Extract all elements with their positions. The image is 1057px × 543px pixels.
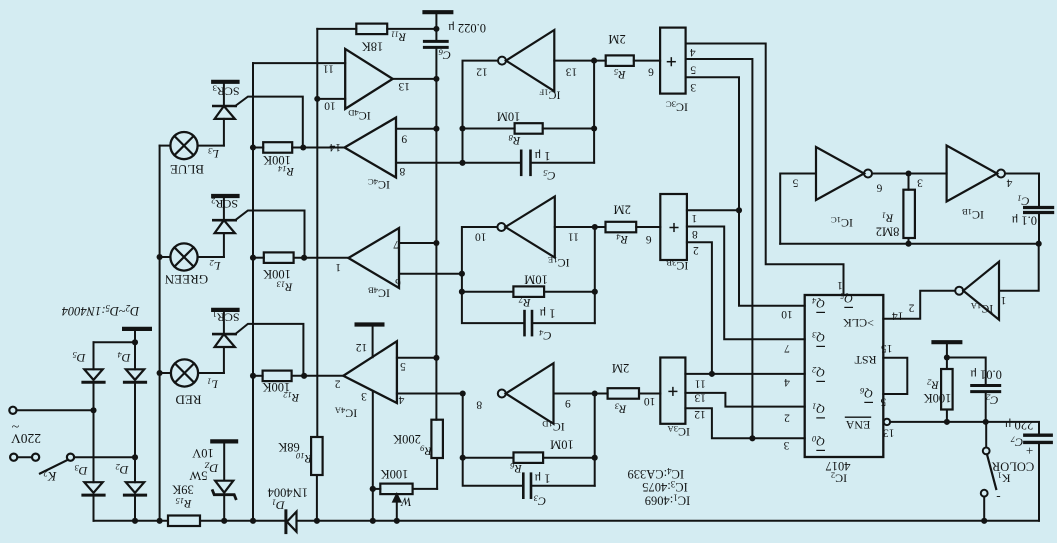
svg-text:10V: 10V [192, 446, 214, 460]
junction IC1F cap row [459, 160, 465, 166]
svg-text:12: 12 [356, 342, 368, 354]
resistor R11 [317, 24, 436, 34]
wire SCR1 anode to lamp [223, 347, 225, 373]
wire Q3 net [687, 227, 805, 340]
wire Q5 net [686, 44, 844, 296]
svg-text:5W: 5W [189, 469, 207, 483]
wire clock rail [780, 243, 1038, 245]
wire bridge top lead [134, 331, 136, 342]
svg-text:15: 15 [881, 342, 893, 354]
wire RST loop [883, 358, 907, 394]
junction rail K1 [981, 518, 987, 524]
junction pullup R14 [250, 144, 256, 150]
svg-text:13: 13 [883, 427, 895, 439]
resistor R7 [462, 286, 595, 297]
wire SCR3 anode to lamp [223, 119, 225, 146]
svg-text:6: 6 [648, 66, 654, 78]
svg-text:10M: 10M [497, 109, 521, 123]
wire IC4A in5 [397, 357, 437, 359]
junction ramp pin5 [433, 355, 439, 361]
svg-text:2M: 2M [614, 203, 631, 217]
svg-text:14: 14 [892, 310, 904, 322]
resistor R14 [253, 142, 345, 153]
inverter IC1D [498, 363, 554, 424]
junction ENA C2 [983, 419, 989, 425]
wire IC1C out [872, 173, 947, 175]
SCR SCR2 body [213, 198, 235, 233]
SCR SCR2 bar [211, 194, 240, 198]
svg-text:>CLK: >CLK [843, 316, 874, 330]
wire Q2 net [685, 373, 804, 375]
wire IC4B in6 [399, 273, 462, 275]
terminal 220V lower [10, 454, 17, 461]
svg-text:7: 7 [784, 342, 790, 354]
junction IC1D fb R6 [460, 455, 466, 461]
svg-text:2M: 2M [608, 32, 625, 46]
wire IC1E out [462, 227, 525, 323]
junction ramp pin9 [433, 126, 439, 132]
wire IC4C in8 [396, 162, 463, 164]
svg-text:13: 13 [398, 81, 410, 93]
SCR SCR3 body [213, 84, 235, 119]
junction rail pullup bus [250, 518, 256, 524]
wire IC1A in [999, 244, 1039, 291]
wire bottom rail right [297, 520, 1040, 522]
wire IC1E fb right [594, 227, 596, 323]
diode D4 [124, 369, 145, 457]
wire IC4C in9 [396, 128, 436, 130]
inverter IC1E [497, 197, 554, 258]
SCR SCR1 gate wire [235, 324, 303, 376]
inverter IC1C [816, 147, 872, 200]
junction W left [370, 486, 376, 492]
resistor R4 [606, 222, 661, 233]
svg-text:4: 4 [398, 394, 404, 406]
svg-text:W: W [400, 495, 412, 509]
svg-text:0.1 μ: 0.1 μ [1011, 214, 1037, 228]
wire IC1F out [463, 61, 499, 163]
potentiometer W [373, 484, 413, 495]
svg-text:5: 5 [400, 360, 406, 372]
junction Q2 IC3B2 [709, 371, 715, 377]
bridge ground bar [122, 327, 152, 331]
svg-text:3: 3 [361, 390, 367, 402]
resistor R3 [608, 388, 661, 399]
svg-text:4: 4 [784, 376, 790, 388]
junction Q4 IC3B1 [736, 207, 742, 213]
junction rail lamp bus [157, 518, 163, 524]
junction ENA R2 [944, 419, 950, 425]
svg-text:1: 1 [691, 212, 697, 224]
inverter IC1F [498, 30, 554, 91]
capacitor C1 [1025, 208, 1053, 244]
switch K2 contact a [32, 454, 39, 461]
SCR SCR1 bar [211, 308, 240, 312]
svg-text:9: 9 [565, 397, 571, 409]
svg-text:10: 10 [475, 231, 487, 243]
ground bar top [422, 12, 453, 29]
wire IC4B in7 [399, 242, 436, 244]
svg-text:2M: 2M [612, 361, 629, 375]
svg-text:1: 1 [837, 279, 843, 291]
zener bar [210, 439, 238, 443]
svg-text:RST: RST [854, 353, 877, 367]
svg-text:+: + [1026, 444, 1033, 459]
wiper arrow W [393, 495, 400, 521]
svg-text:1 μ: 1 μ [534, 149, 550, 163]
switch K2 blade [40, 460, 68, 474]
svg-text:12: 12 [694, 408, 706, 420]
svg-text:2: 2 [334, 378, 340, 390]
wire SCR2 anode to lamp [223, 233, 225, 257]
junction R1 bottom [905, 241, 911, 247]
wire IC1F fb right [593, 61, 595, 163]
SCR SCR3 gate wire [235, 97, 303, 148]
junction IC1E pin6 row [459, 271, 465, 277]
svg-text:8M2: 8M2 [876, 225, 900, 239]
wire bridge right column upper [134, 342, 136, 369]
diode D5 [83, 369, 104, 410]
wire bridge left column upper [93, 342, 95, 369]
wire Q0 net [685, 408, 804, 438]
wire pullup bus [252, 63, 254, 521]
svg-text:5: 5 [792, 177, 798, 189]
op-amp IC4D [345, 49, 393, 109]
ENA bubble [884, 419, 890, 425]
svg-text:-: - [996, 491, 1000, 506]
svg-text:~: ~ [11, 418, 19, 433]
svg-text:11: 11 [695, 378, 706, 390]
junction IC1E fb R7 [459, 289, 465, 295]
svg-text:18K: 18K [362, 40, 384, 54]
capacitor C6 [424, 29, 447, 79]
junction IC1E in [592, 224, 598, 230]
wire C2 top [947, 358, 986, 385]
junction rail wiper [394, 518, 400, 524]
capacitor C2 [972, 386, 1000, 422]
svg-text:6: 6 [395, 276, 401, 288]
wire IC1C in [780, 174, 816, 244]
wire IC4D in10 [317, 98, 345, 100]
svg-text:4: 4 [690, 46, 696, 58]
junction divider pin10 [314, 96, 320, 102]
svg-text:9: 9 [401, 133, 407, 145]
svg-text:10: 10 [781, 308, 793, 320]
IC4A gnd stub [372, 327, 374, 358]
wire IC1F in [554, 60, 605, 62]
IC4A vcc stub [372, 392, 374, 520]
svg-text:11: 11 [323, 63, 334, 75]
junction bridge right mid [132, 454, 138, 460]
svg-text:RED: RED [176, 393, 202, 408]
svg-text:0.01 μ: 0.01 μ [970, 368, 1002, 382]
wire IC4D in11 [253, 62, 345, 64]
resistor R10 [311, 437, 323, 521]
switch K2 contact b [67, 454, 74, 461]
junction R6 right [592, 455, 598, 461]
junction R14 gate [300, 144, 306, 150]
svg-text:1 μ: 1 μ [539, 307, 555, 321]
op-amp IC4C [345, 118, 397, 178]
svg-text:2: 2 [784, 412, 790, 424]
zener diode DZ [213, 481, 236, 521]
wire Q0 to IC3C5 [686, 59, 753, 438]
wire lamp bus [159, 146, 161, 521]
junction pullup R13 [250, 255, 256, 261]
wire K2 to bridge right column [74, 456, 135, 458]
inverter IC1B [947, 146, 1005, 202]
svg-text:1: 1 [1000, 294, 1006, 306]
svg-text:6: 6 [646, 233, 652, 245]
terminal 220V upper [9, 407, 16, 414]
wire IC1E in [555, 226, 606, 228]
junction bridge left mid [90, 407, 96, 413]
wire IC1B out [1005, 174, 1039, 207]
resistor R1 [903, 174, 915, 244]
resistor R9 [413, 420, 443, 489]
inverter IC1A [955, 262, 999, 320]
wire Q4 net [686, 77, 805, 306]
svg-text:IC4:CA339: IC4:CA339 [628, 466, 685, 481]
wire IC1D out fb [463, 394, 524, 486]
IC2 4017 body [805, 295, 884, 457]
svg-text:10M: 10M [550, 438, 574, 452]
wire IC4D out [393, 78, 437, 80]
junction C6 top [433, 26, 439, 32]
wire ENA net [890, 422, 1039, 434]
resistor R5 [606, 55, 660, 66]
capacitor C3 [523, 474, 594, 498]
junction rail comparator V+ [370, 518, 376, 524]
svg-text:5: 5 [690, 64, 696, 76]
diode D2 [124, 482, 145, 521]
svg-text:GREEN: GREEN [164, 272, 208, 287]
junction ramp out13 [433, 76, 439, 82]
svg-text:6: 6 [876, 182, 882, 194]
svg-text:1: 1 [335, 262, 341, 274]
junction rail zener [221, 518, 227, 524]
wire IC3B pin2 stub [687, 242, 712, 374]
junction R13 gate [301, 255, 307, 261]
svg-text:4: 4 [1006, 177, 1012, 189]
switch K1 contact lower [981, 490, 988, 521]
wire upper terminal to bridge [17, 409, 94, 411]
op-amp IC4A [343, 341, 397, 403]
diode D1 [286, 511, 297, 533]
capacitor C5 [463, 151, 595, 175]
svg-text:IC3:4075: IC3:4075 [642, 479, 687, 494]
resistor R2 [941, 369, 953, 422]
switch K1 blade [987, 454, 996, 489]
svg-text:11: 11 [568, 231, 579, 243]
capacitor C4 [525, 311, 595, 335]
resistor R6 [463, 452, 595, 463]
svg-text:10: 10 [324, 100, 336, 112]
junction R1 top [905, 170, 911, 176]
junction rail D2 [132, 518, 138, 524]
svg-text:100K: 100K [381, 467, 409, 481]
IC4A gnd bar [355, 322, 385, 326]
junction lamp green [157, 254, 163, 260]
svg-text:39K: 39K [172, 483, 194, 497]
junction ramp pin7 [433, 240, 439, 246]
junction rail R10 [314, 518, 320, 524]
or-gate IC3A [660, 358, 685, 424]
or-gate IC3C [660, 28, 686, 94]
wire bridge right column lower [134, 457, 136, 482]
svg-text:220 μ: 220 μ [1004, 418, 1033, 432]
ground bar R2 [931, 340, 962, 344]
svg-text:14: 14 [329, 141, 341, 153]
junction R12 gate [301, 373, 307, 379]
SCR SCR1 body [213, 312, 235, 347]
svg-text:5: 5 [880, 396, 886, 408]
wire zener upper lead [223, 444, 225, 481]
svg-text:200K: 200K [393, 432, 421, 446]
lamp L2 GREEN [160, 243, 224, 270]
wire bridge left column lower [93, 410, 95, 482]
junction IC1D out [460, 390, 466, 396]
wire IC1D in [554, 393, 608, 395]
svg-text:3: 3 [690, 81, 696, 93]
wire bottom rail mid [200, 520, 285, 522]
wire IC4A in4 [397, 393, 463, 395]
SCR SCR3 bar [211, 80, 240, 84]
lamp L3 BLUE [160, 132, 224, 159]
wire R2 top [946, 344, 948, 369]
svg-text:3: 3 [917, 177, 923, 189]
svg-text:8: 8 [476, 399, 482, 411]
resistor R13 [253, 252, 348, 263]
op-amp IC4B [348, 228, 399, 288]
lamp L1 RED [160, 359, 224, 386]
wire CLK net [883, 291, 955, 319]
junction clock C1 [1036, 241, 1042, 247]
svg-text:10M: 10M [524, 273, 548, 287]
svg-text:3: 3 [783, 439, 789, 451]
svg-text:0.022 μ: 0.022 μ [448, 21, 486, 35]
diode D3 [83, 482, 104, 521]
svg-text:100K: 100K [924, 391, 952, 405]
wire IC3B pin1 stub [687, 209, 739, 211]
svg-text:8: 8 [692, 228, 698, 240]
junction Q0 [749, 435, 755, 441]
svg-text:2: 2 [908, 302, 914, 314]
wire Q1 net [685, 393, 804, 407]
or-gate IC3B [660, 194, 687, 260]
junction pullup R12 [250, 373, 256, 379]
svg-text:ENA: ENA [845, 418, 870, 432]
switch K1 contact upper [983, 422, 990, 454]
resistor R15 [168, 516, 200, 527]
junction R8 right [591, 125, 597, 131]
resistor R8 [463, 123, 595, 134]
svg-text:8: 8 [399, 165, 405, 177]
wire divider bus [316, 29, 318, 437]
junction lamp red [157, 370, 163, 376]
junction bridge top [132, 339, 138, 345]
wire bottom rail left [94, 520, 169, 522]
junction R7 right [592, 289, 598, 295]
svg-text:12: 12 [476, 66, 488, 78]
svg-text:100K: 100K [263, 267, 291, 281]
junction IC1F fb R8 [459, 125, 465, 131]
svg-text:1 μ: 1 μ [534, 472, 550, 486]
svg-text:2: 2 [693, 244, 699, 256]
SCR SCR2 gate wire [235, 211, 304, 258]
junction IC1F in [591, 58, 597, 64]
wire bridge top connector [94, 341, 136, 343]
svg-text:7: 7 [393, 238, 399, 250]
svg-text:BLUE: BLUE [170, 162, 204, 177]
resistor R12 [253, 371, 343, 382]
svg-text:IC1:4069: IC1:4069 [645, 492, 690, 507]
capacitor C7 [1025, 435, 1051, 521]
svg-text:4017: 4017 [826, 459, 851, 473]
wire IC1D fb right [594, 394, 596, 486]
junction IC1D in [592, 390, 598, 396]
svg-text:13: 13 [566, 66, 578, 78]
wire lower terminal [17, 456, 32, 458]
wire ramp bus [435, 79, 437, 420]
junction vcc W [370, 486, 376, 492]
junction R2 C2 top [944, 354, 950, 360]
svg-text:10: 10 [644, 395, 656, 407]
